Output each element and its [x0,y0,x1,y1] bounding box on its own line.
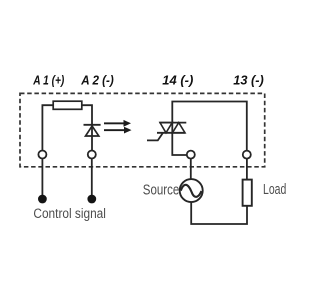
terminal circle 13 [243,151,251,159]
terminal circle A2 [88,151,96,159]
wire A1 vertical [42,105,53,150]
svg-text:A 2 (-): A 2 (-) [80,74,113,88]
control dot A2 [87,195,96,204]
svg-text:13 (-): 13 (-) [233,74,263,88]
svg-text:Source: Source [143,183,180,199]
triac Q1 bottom rail [157,132,185,134]
svg-text:Control signal: Control signal [33,206,106,222]
wire A1 terminal to control dot [41,159,43,196]
triac Q1 top rail [159,122,186,124]
wire source bottom loop [191,202,247,224]
resistor R1 [53,101,82,109]
svg-text:A 1 (+): A 1 (+) [32,74,64,88]
terminal circle A1 [38,151,46,159]
light emission arrow 1 [104,120,131,127]
terminal circle 14 [187,151,195,159]
wire triac to 14 terminal [172,133,186,155]
LED D1 cathode bar [84,124,101,126]
svg-text:14 (-): 14 (-) [162,74,193,88]
AC source V1 circle [180,179,203,202]
SSR enclosure dashed box [20,93,265,166]
LED D1 triangle [86,126,99,136]
triac gate lead [147,133,163,141]
light emission arrow 2 [104,127,132,134]
load resistor [243,180,252,206]
triac Q1 right triangle [172,123,185,133]
wire resistor to LED branch [82,105,92,150]
control dot A1 [38,195,47,204]
triac Q1 left triangle [160,123,172,133]
svg-text:Load: Load [263,182,286,198]
output loop top wire [172,102,247,151]
wire 14 terminal to source [190,159,192,180]
wire load to 13 terminal [246,159,248,180]
AC source sine wave [181,185,202,197]
wire A2 terminal to control dot [91,159,93,196]
